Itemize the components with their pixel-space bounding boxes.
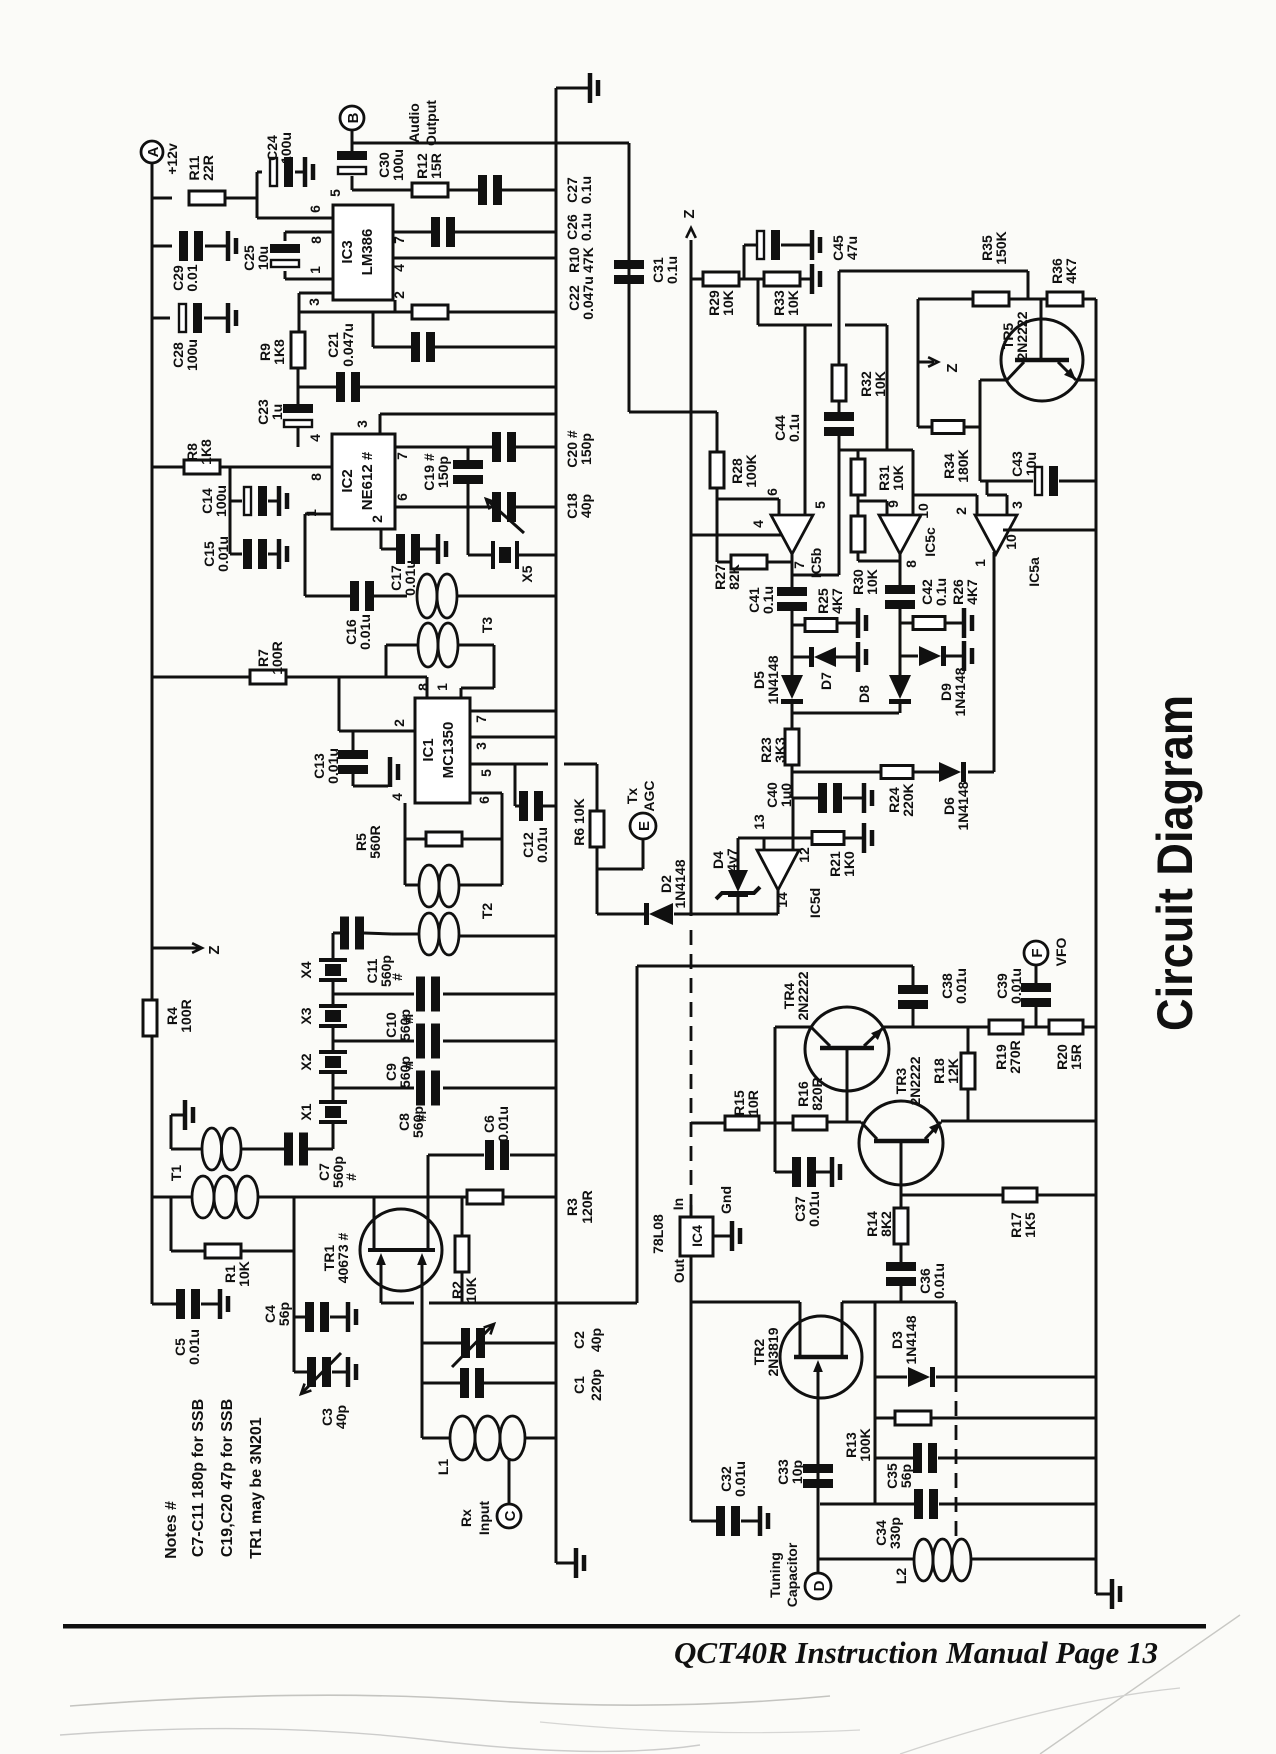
resistor R28 [710,452,724,488]
crystal X1 [332,1073,335,1102]
resistor R34 [917,299,920,427]
resistor R36 [1047,292,1083,306]
svg-text:1K0: 1K0 [841,851,857,877]
resistor R25 [792,624,805,627]
resistor R35 [918,298,973,301]
trimmer C2 [422,1342,462,1345]
svg-text:E: E [636,821,653,831]
resistor R30 [851,516,865,552]
svg-text:IC4: IC4 [689,1225,705,1247]
svg-text:1K8: 1K8 [198,439,214,465]
svg-text:40p: 40p [333,1405,349,1429]
svg-text:F: F [1029,948,1046,957]
diode D3 [875,1376,907,1379]
resistor R8 [152,466,184,469]
svg-text:X2: X2 [298,1053,314,1070]
svg-text:C1: C1 [571,1376,587,1394]
svg-text:1: 1 [307,266,323,274]
capacitor C41 [777,587,807,596]
svg-text:100u: 100u [390,149,406,181]
svg-text:10: 10 [1003,534,1019,550]
svg-text:Circuit Diagram: Circuit Diagram [1147,695,1203,1031]
wire drain to D3 node [955,1302,958,1377]
svg-text:560p: 560p [397,1056,413,1088]
IC3 pin2 stub [394,300,397,312]
svg-text:10: 10 [915,503,931,519]
resistor R17 [1003,1188,1037,1202]
svg-text:0.01u: 0.01u [1008,968,1024,1004]
capacitor C1 [422,1382,460,1385]
wire D5-D8 node [792,712,899,715]
svg-text:150p: 150p [578,433,594,465]
node Z arrow top [686,228,696,238]
svg-text:560R: 560R [367,825,383,858]
svg-text:8K2: 8K2 [878,1211,894,1237]
svg-text:8: 8 [903,560,919,568]
crystal X5 [468,554,493,557]
capacitor C9 [333,1040,414,1043]
svg-text:Notes #: Notes # [163,1501,180,1559]
capacitor C10 [333,993,414,996]
svg-text:7: 7 [391,236,407,244]
svg-text:100R: 100R [269,641,285,674]
svg-text:100u: 100u [213,485,229,517]
capacitor C30 [351,130,354,152]
svg-text:1K8: 1K8 [271,339,287,365]
node Z arrow at TR5 [918,361,934,364]
svg-text:1N4148: 1N4148 [765,655,781,704]
resistor R5 [405,838,426,841]
svg-text:1K5: 1K5 [1022,1212,1038,1238]
IC2 pin6 wire / trimmer C18 [395,506,493,509]
IC3 pin5 wire / resistor R12 [352,189,412,192]
wire audio tap Y143 [352,142,629,145]
wire IC5b output node [791,554,794,589]
svg-text:4v7: 4v7 [724,848,740,872]
op-amp IC5d [757,850,799,890]
svg-text:T3: T3 [479,617,495,634]
capacitor C5 [152,1303,176,1306]
resistor R3 [467,1190,503,1204]
ground top of bus [556,87,588,90]
capacitor C25 [285,231,333,234]
svg-text:4: 4 [750,520,766,528]
svg-text:9: 9 [885,500,901,508]
capacitor C23 [283,404,313,413]
IC1 pin6 wire to T2 [470,792,502,795]
IC1 pin7 wire [470,710,556,713]
svg-text:1: 1 [434,683,450,691]
svg-text:220p: 220p [588,1369,604,1401]
svg-text:0.01u: 0.01u [931,1263,947,1299]
svg-text:820R: 820R [809,1077,825,1110]
svg-text:0.01u: 0.01u [495,1106,511,1142]
svg-text:Capacitor: Capacitor [784,1542,800,1607]
resistor R20 [1049,1020,1083,1034]
op-amp IC5c [912,450,915,516]
capacitor C37 [774,1123,777,1172]
svg-text:IC5c: IC5c [922,527,938,557]
IC U1 IC1 MC1350 [415,698,470,803]
capacitor C43 [980,480,1033,483]
IC1 pin2 wire / capacitor C13 [338,677,341,731]
capacitor C8 [333,1087,414,1090]
crystal X4 [332,933,335,959]
resistor R21 [812,832,844,845]
capacitor C32 [691,1520,716,1523]
IC1 pin5 wire / capacitor C12 [470,763,548,766]
wire 8V to TR2 source [691,1301,800,1304]
svg-text:1: 1 [972,559,988,567]
svg-text:5: 5 [812,501,828,509]
IC1 pin4 stub [404,803,407,885]
svg-text:D8: D8 [856,685,872,703]
svg-text:8: 8 [308,236,324,244]
svg-text:#: # [343,1173,359,1181]
svg-text:15R: 15R [1068,1044,1084,1070]
svg-text:10K: 10K [236,1261,252,1287]
svg-text:Input: Input [476,1501,492,1536]
capacitor C33 [803,1464,833,1473]
svg-text:5: 5 [478,769,494,777]
wire IC5a output to rail [1003,529,1096,532]
svg-text:C19,C20 47p for SSB: C19,C20 47p for SSB [219,1399,236,1557]
resistor R27 [716,499,719,562]
svg-text:560p: 560p [330,1156,346,1188]
svg-text:AGC: AGC [641,780,657,811]
crystal X2 [332,1027,335,1051]
svg-text:15R: 15R [428,153,444,179]
svg-text:100u: 100u [184,339,200,371]
ground at T1 [183,1100,188,1130]
svg-text:+12v: +12v [164,143,180,175]
capacitor C21 [298,386,337,389]
svg-text:1N4148: 1N4148 [952,667,968,716]
transistor TR4 2N2222 [805,1007,889,1091]
svg-text:40p: 40p [588,1328,604,1352]
capacitor C11 [333,932,341,935]
svg-text:1N4148: 1N4148 [955,781,971,830]
op-amp IC5a [913,494,977,497]
svg-text:6: 6 [764,488,780,496]
svg-text:150K: 150K [993,231,1009,264]
wire audio AGC tap to C31 [628,143,631,412]
wire IC4 out [690,1256,693,1521]
capacitor C15 [229,501,232,554]
svg-text:TR1 may be 3N201: TR1 may be 3N201 [248,1417,265,1559]
svg-text:10K: 10K [785,290,801,316]
svg-text:4K7: 4K7 [1063,258,1079,284]
capacitor C42 [885,585,915,594]
capacitor C28 [152,317,170,320]
svg-text:X3: X3 [298,1007,314,1024]
svg-text:Output: Output [423,100,439,146]
svg-text:100K: 100K [857,1428,873,1461]
svg-text:Out: Out [671,1259,687,1283]
svg-text:6: 6 [307,205,323,213]
wire Z to IC5b pin4 [691,534,782,537]
wire +12v rail [151,163,154,1002]
resistor R10 [299,311,412,314]
svg-text:100R: 100R [178,999,194,1032]
svg-text:3: 3 [306,298,322,306]
svg-text:R3: R3 [564,1198,580,1216]
svg-text:10K: 10K [890,465,906,491]
terminal B audio output [340,106,364,130]
svg-text:100u: 100u [278,132,294,164]
svg-text:10K: 10K [872,371,888,397]
svg-text:2: 2 [953,507,969,515]
resistor R4 [143,1000,157,1036]
svg-text:0.1u: 0.1u [933,578,949,606]
svg-text:10K: 10K [463,1277,479,1303]
resistor R24 [792,771,881,774]
wire C45 node to TR5 base [839,270,1028,273]
svg-text:Z: Z [206,945,223,954]
diode D8 [889,675,911,699]
svg-text:4: 4 [389,793,405,801]
svg-text:0.01u: 0.01u [534,827,550,863]
capacitor C45 [743,245,746,279]
svg-text:0.01u: 0.01u [732,1461,748,1497]
svg-text:3: 3 [1009,501,1025,509]
wire dashed tuning link [955,1377,958,1545]
terminal A +12v [141,141,163,163]
svg-text:10K: 10K [864,569,880,595]
svg-text:C21: C21 [325,332,341,358]
resistor R1 [170,1197,173,1251]
capacitor C29 [152,245,172,248]
svg-text:10p: 10p [789,1460,805,1484]
wire 8V line from bus [556,1302,637,1305]
svg-text:0.01u: 0.01u [953,968,969,1004]
IC3 pin4 wire [393,257,556,260]
svg-text:2N2222: 2N2222 [1014,311,1030,360]
svg-text:10K: 10K [720,290,736,316]
resistor R7 [152,676,250,679]
svg-text:8: 8 [308,473,324,481]
svg-text:150p: 150p [435,456,451,488]
svg-text:IC2: IC2 [339,469,356,492]
wire C31 to R28 [629,411,717,414]
IC2 pin3 wire [379,414,382,434]
svg-text:0.1u: 0.1u [664,256,680,284]
resistor R16 [793,1116,827,1130]
resistor R19 [989,1020,1023,1034]
wire pin9 node [857,494,860,517]
svg-text:560p: 560p [378,955,394,987]
zener D4 [737,838,740,872]
svg-text:1N4148: 1N4148 [672,859,688,908]
svg-text:2N2222: 2N2222 [907,1056,923,1105]
svg-text:14: 14 [774,892,790,908]
wire R34 to C43 [979,380,982,481]
wire Z net vertical [690,240,693,916]
transformer T1 secondary [171,1148,202,1151]
svg-text:T2: T2 [479,903,495,920]
svg-text:0.01u: 0.01u [325,748,341,784]
capacitor C44 body [838,401,841,412]
svg-text:QCT40R Instruction Manual Pa: QCT40R Instruction Manual Page 13 [674,1635,1158,1670]
resistor R15 [725,1116,759,1130]
svg-text:0.01: 0.01 [184,264,200,291]
svg-text:47K: 47K [580,247,596,273]
resistor R26 [900,622,913,625]
inductor L2 [818,1558,914,1561]
trimmer C3 [294,1371,307,1374]
ground at rail bottom [1096,1593,1110,1596]
svg-text:2: 2 [391,291,407,299]
resistor R29 [691,278,703,281]
inductor L1 [421,1343,424,1438]
svg-text:0.1u: 0.1u [578,213,594,241]
svg-text:180K: 180K [955,449,971,482]
svg-text:X5: X5 [519,565,535,582]
svg-text:10u: 10u [255,246,271,270]
svg-text:B: B [345,112,362,123]
svg-text:X1: X1 [298,1103,314,1120]
svg-text:0.1u: 0.1u [786,414,802,442]
transistor TR5 2N2222 [1001,319,1083,401]
svg-text:2: 2 [369,515,385,523]
resistor R6 [596,764,599,812]
diode D9 [900,655,918,658]
transformer T1 primary [152,1196,192,1199]
IC2 pin7 wire / capacitor C20 [395,446,493,449]
wire T1 tank vertical [293,1197,296,1372]
resistor R31 [851,459,865,495]
wire block separator dashed [690,930,693,1205]
svg-text:C7-C11 180p for SSB: C7-C11 180p for SSB [190,1399,207,1557]
capacitor C35 [875,1457,913,1460]
svg-text:NE612 #: NE612 # [359,451,376,510]
op-amp IC5b [717,498,779,501]
capacitor C24 [257,171,262,174]
svg-text:Tuning: Tuning [767,1552,783,1598]
wire IC5a pin3 [986,481,989,495]
svg-text:IC5a: IC5a [1026,557,1042,587]
terminal F VFO [1024,941,1048,965]
wire right rail [1095,299,1098,1594]
svg-text:4: 4 [391,264,407,272]
resistor R2 [461,1197,464,1237]
resistor R11 [152,197,172,200]
capacitor C39 [1035,965,1038,984]
svg-text:2: 2 [391,719,407,727]
capacitor C36 [886,1262,916,1271]
capacitor C17 at IC2 pin2 [380,529,383,549]
footer rule [63,1624,1206,1629]
svg-text:6: 6 [476,796,492,804]
svg-text:C2: C2 [571,1331,587,1349]
svg-text:Gnd: Gnd [718,1186,734,1214]
svg-text:56p: 56p [898,1464,914,1488]
diode D5 [781,675,803,699]
resistor R13 [875,1417,895,1420]
capacitor C31 [614,260,644,269]
IC1 pin3 wire [470,736,556,739]
wire R15 R16 divider [774,1027,777,1123]
svg-text:5: 5 [327,189,343,197]
svg-text:47u: 47u [844,236,860,260]
svg-text:0.1u: 0.1u [578,176,594,204]
wire IC5c output [899,554,902,587]
capacitor C22 [372,312,375,347]
svg-text:1N4148: 1N4148 [903,1315,919,1364]
svg-text:40p: 40p [578,494,594,518]
svg-text:1u: 1u [269,404,285,420]
svg-text:3: 3 [473,742,489,750]
svg-text:A: A [145,146,162,157]
svg-text:3K3: 3K3 [772,737,788,763]
diode D2 [649,903,673,925]
resistor R32 chain [838,271,841,365]
svg-text:L1: L1 [435,1459,451,1476]
svg-text:22R: 22R [200,155,216,181]
svg-text:8: 8 [415,683,431,691]
resistor R18 [967,1027,970,1054]
svg-text:0.01u: 0.01u [357,614,373,650]
wire Tx AGC to D2 [597,913,644,916]
wire TR1 source to R2 [381,1302,414,1305]
crystal X3 [332,981,335,1005]
IC U3 IC3 LM386 [333,205,393,300]
svg-text:12K: 12K [945,1058,961,1084]
svg-text:0.01u: 0.01u [186,1329,202,1365]
capacitor C40 [792,797,818,800]
svg-text:4: 4 [307,434,323,442]
svg-text:2N2222: 2N2222 [795,971,811,1020]
resistor R33 [764,272,800,286]
svg-text:7: 7 [394,452,410,460]
transformer T3 [417,574,437,618]
capacitor C6 [428,1154,484,1157]
svg-text:Z: Z [944,363,961,372]
svg-text:IC1: IC1 [420,738,437,761]
wire ground bus [555,88,558,1563]
svg-text:220K: 220K [900,783,916,816]
svg-text:X4: X4 [298,961,314,978]
svg-text:C: C [502,1510,519,1521]
capacitor C16 [350,581,359,611]
svg-text:0.1u: 0.1u [760,586,776,614]
wire TR4 emitter line [883,1026,1096,1029]
svg-text:56p: 56p [276,1302,292,1326]
capacitor C14 [229,467,232,501]
svg-text:0.01u: 0.01u [215,536,231,572]
wire R11 to pin6 jog [256,172,259,218]
svg-text:120R: 120R [579,1190,595,1223]
IC U4 IC4 78L08 regulator [680,1217,713,1256]
svg-text:LM386: LM386 [359,229,376,276]
svg-text:IC3: IC3 [339,240,356,263]
wire VFO tank vertical [874,1302,877,1504]
resistor R14 [900,1195,903,1209]
capacitor C19 [467,447,470,461]
svg-text:#: # [400,1016,416,1024]
svg-text:2N3819: 2N3819 [765,1327,781,1376]
svg-text:Audio: Audio [406,103,422,143]
svg-text:78L08: 78L08 [650,1214,666,1254]
svg-text:82K: 82K [726,564,742,590]
svg-text:6: 6 [394,493,410,501]
node Z arrow at rail [152,947,200,950]
IC3 pin3 wire / resistor R9 [299,292,333,295]
ground bottom of bus [556,1562,574,1565]
wire TR3 emitter node [901,1194,1004,1197]
IC3 pin7 wire / capacitor C26 [393,231,432,234]
transistor TR1 40673 [360,1209,442,1291]
